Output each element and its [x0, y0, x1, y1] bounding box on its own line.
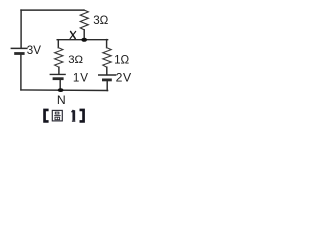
- battery 3V long plate: [11, 47, 28, 49]
- wire right branch upper lead: [106, 40, 108, 48]
- wire top rail: [21, 9, 84, 11]
- wire bottom rail: [21, 89, 108, 92]
- caption character tu (figure) box: [52, 110, 62, 121]
- svg-text:1V: 1V: [73, 71, 89, 84]
- battery 2V long plate: [98, 74, 116, 76]
- wire left zigzag to battery lead: [58, 67, 60, 74]
- caption figure number 1: [72, 110, 76, 121]
- wire 2V battery to bottom rail stub: [106, 80, 108, 91]
- wire left branch upper lead: [57, 40, 59, 48]
- node N junction dot: [58, 88, 64, 92]
- svg-text:3Ω: 3Ω: [68, 54, 83, 66]
- svg-text:N: N: [57, 93, 66, 107]
- battery 3V short plate: [14, 52, 24, 55]
- battery 1V short plate: [53, 77, 64, 80]
- resistor 3ohm top zigzag: [80, 10, 88, 30]
- svg-text:2V: 2V: [116, 71, 132, 85]
- resistor 3ohm left zigzag: [55, 48, 63, 68]
- label node X: [70, 31, 76, 38]
- wire crossbar node X rail: [57, 39, 107, 41]
- battery 2V short plate: [102, 79, 112, 82]
- wire resistor-to-X lead: [83, 30, 85, 40]
- battery 1V long plate: [50, 73, 66, 75]
- wire left rail lower: [20, 54, 22, 90]
- resistor 1ohm right zigzag: [103, 48, 111, 68]
- svg-text:1Ω: 1Ω: [114, 54, 129, 67]
- wire right zigzag to battery lead: [106, 67, 108, 75]
- caption left lenticular bracket: [43, 109, 48, 123]
- wire left rail upper: [20, 10, 22, 48]
- wire 1V battery to N stub: [59, 79, 61, 90]
- node X junction dot: [81, 38, 87, 42]
- svg-text:3Ω: 3Ω: [93, 14, 108, 27]
- caption right lenticular bracket: [80, 109, 85, 123]
- svg-text:3V: 3V: [27, 44, 41, 57]
